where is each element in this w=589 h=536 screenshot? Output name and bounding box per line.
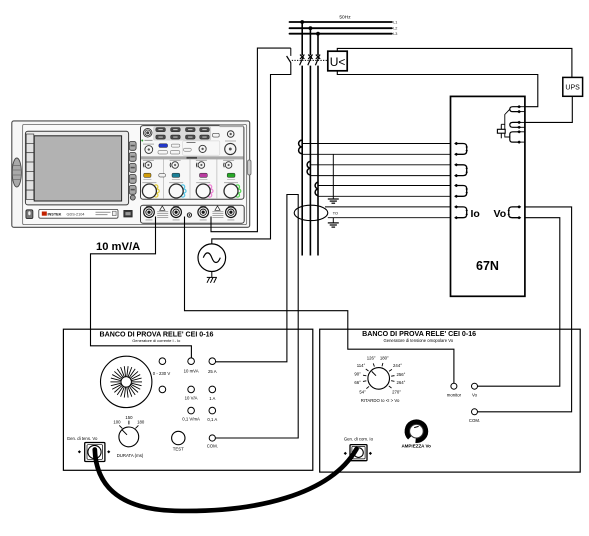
svg-text:Generatore di tensione omopola: Generatore di tensione omopolare Vo [383, 338, 453, 343]
svg-text:180: 180 [137, 419, 145, 424]
svg-text:25 A: 25 A [208, 369, 217, 374]
svg-text:AMPIEZZA Vo: AMPIEZZA Vo [401, 444, 431, 449]
svg-text:monitor: monitor [447, 392, 462, 397]
svg-text:67N: 67N [476, 259, 499, 273]
svg-text:L2: L2 [393, 27, 397, 31]
svg-text:BANCO DI PROVA RELE' CEI 0-16: BANCO DI PROVA RELE' CEI 0-16 [99, 330, 213, 338]
svg-text:126°: 126° [367, 355, 376, 360]
svg-text:TEST: TEST [173, 447, 184, 452]
svg-text:114°: 114° [357, 363, 366, 368]
svg-text:DURATA (ms): DURATA (ms) [117, 453, 144, 458]
svg-text:COM.: COM. [469, 418, 480, 423]
svg-text:0 - 230 V: 0 - 230 V [153, 371, 171, 376]
svg-text:TO: TO [333, 212, 338, 216]
svg-text:Gen. di tens. Vo: Gen. di tens. Vo [67, 436, 98, 441]
svg-text:0,1 A: 0,1 A [207, 417, 217, 422]
svg-text:L3: L3 [393, 32, 397, 36]
svg-text:264°: 264° [396, 380, 405, 385]
svg-text:100: 100 [113, 419, 121, 424]
svg-text:COM.: COM. [207, 444, 218, 449]
svg-text:50Hz: 50Hz [339, 15, 351, 21]
svg-text:Generatore di corrente I - Io: Generatore di corrente I - Io [132, 338, 180, 343]
svg-text:GDS-2104: GDS-2104 [67, 213, 85, 217]
svg-text:66°: 66° [354, 380, 361, 385]
svg-text:Io: Io [471, 208, 480, 220]
svg-text:180°: 180° [380, 355, 389, 360]
svg-text:RITARDO Io <I > Vo: RITARDO Io <I > Vo [361, 398, 400, 403]
svg-text:256°: 256° [396, 372, 405, 377]
svg-text:10 mVA: 10 mVA [184, 369, 199, 374]
svg-text:150: 150 [125, 415, 133, 420]
svg-text:1 A: 1 A [209, 396, 215, 401]
svg-text:10 V/A: 10 V/A [185, 396, 198, 401]
svg-text:INSTEK: INSTEK [48, 213, 62, 217]
svg-text:244°: 244° [393, 363, 402, 368]
svg-text:UPS: UPS [565, 85, 580, 92]
svg-text:Vo: Vo [494, 208, 507, 220]
svg-text:Vo: Vo [472, 392, 478, 397]
svg-text:10 mV/A: 10 mV/A [96, 241, 140, 253]
svg-text:90°: 90° [354, 372, 361, 377]
svg-text:L1: L1 [393, 20, 397, 24]
svg-text:0,1 V/mA: 0,1 V/mA [182, 417, 200, 422]
svg-text:54°: 54° [359, 389, 366, 394]
svg-text:Gen. di com. Io: Gen. di com. Io [344, 436, 374, 441]
svg-text:270°: 270° [392, 389, 401, 394]
svg-text:U<: U< [330, 55, 346, 69]
